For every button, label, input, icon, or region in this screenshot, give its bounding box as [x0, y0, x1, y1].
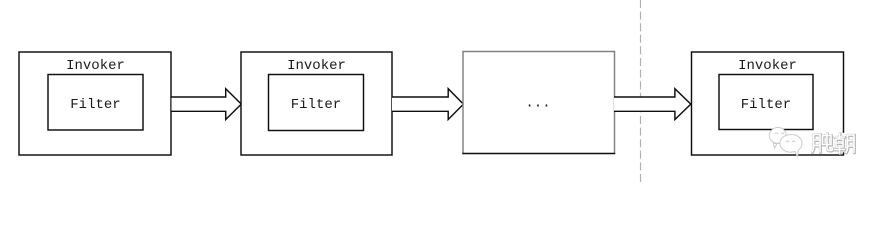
invoker box 4: [692, 52, 844, 155]
肥 right ba component body: [823, 134, 833, 151]
ellipsis box 3 gray sides: [463, 52, 615, 155]
ellipsis box 3 fill: [463, 52, 615, 154]
svg-text:Filter: Filter: [70, 97, 120, 113]
filter box 1: [48, 75, 143, 131]
watermark text 肥朝 white stroke body: [812, 134, 854, 154]
肥 left moon radical body: [812, 135, 820, 153]
watermark bubble back: [769, 127, 786, 148]
filter box 4: [719, 75, 813, 130]
朝 right moon contour: [846, 135, 854, 153]
svg-text:Filter: Filter: [741, 97, 791, 113]
invoker box 2: [241, 52, 392, 155]
arrow 3: [614, 89, 691, 120]
肥 left moon radical contour: [812, 135, 820, 153]
watermark bubble back eyes: [775, 133, 784, 134]
ellipsis box 3 black bottom edge: [462, 153, 615, 155]
filter box 2: [269, 75, 364, 131]
watermark text 肥朝 gray contour: [812, 134, 854, 154]
invoker box 1: [19, 52, 171, 155]
svg-text:Filter: Filter: [291, 97, 341, 113]
朝 right moon body: [846, 135, 854, 153]
arrow 2: [392, 89, 463, 120]
朝 left sun stack contour: [835, 134, 845, 154]
svg-text:Invoker: Invoker: [738, 58, 797, 74]
肥 right ba component contour: [823, 134, 833, 151]
watermark bubble front eyes: [786, 141, 795, 142]
watermark white erase over box edge behind 朝: [842, 133, 845, 153]
svg-text:...: ...: [525, 96, 550, 112]
svg-text:Invoker: Invoker: [66, 58, 125, 74]
dashed separator line: [640, 0, 642, 183]
朝 left sun stack body: [835, 134, 845, 154]
watermark bubble front: [780, 135, 802, 157]
svg-text:Invoker: Invoker: [287, 58, 346, 74]
arrow 1: [172, 89, 242, 120]
